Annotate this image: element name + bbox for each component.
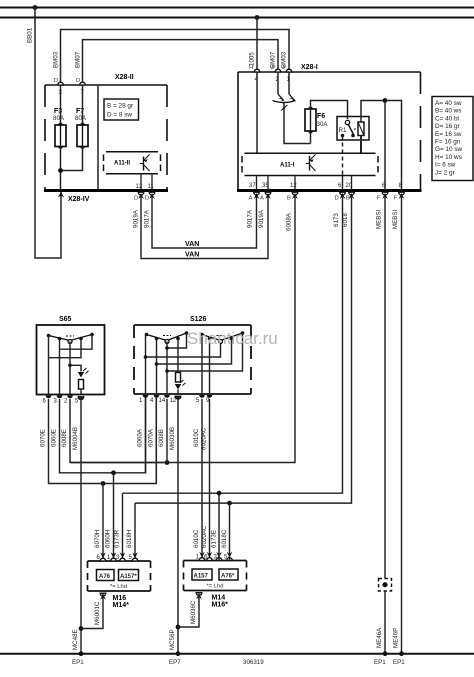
junction line D with M16 pin6 wire — [101, 481, 106, 486]
junction M6001C joins M6004B — [79, 626, 84, 631]
svg-text:R1: R1 — [339, 127, 347, 134]
svg-text:B= 40 ws: B= 40 ws — [435, 108, 461, 115]
wire 1005 down to X28-I pin 4 — [256, 18, 258, 73]
svg-text:12: 12 — [136, 184, 143, 190]
svg-text:9017A: 9017A — [247, 209, 254, 228]
wire VAN lower (9019A: A11-II pin12 to A11-I pin35) — [141, 194, 268, 259]
svg-text:M16: M16 — [113, 595, 127, 602]
wire M16 pin6 drop — [102, 484, 104, 562]
wire A11-I pin 12 stub — [294, 176, 296, 190]
wire M6036C (M14 to MC56P junction) — [178, 593, 199, 627]
S65 wire pin6 (left arm down to bottom) — [48, 336, 50, 395]
legend box B/D codes — [104, 99, 139, 120]
svg-text:A: A — [249, 196, 253, 202]
svg-text:M6030B: M6030B — [169, 427, 176, 450]
wire BB01 vertical feed — [35, 8, 61, 259]
relay coil box with diagonal — [358, 122, 364, 136]
connector M16 box — [88, 561, 151, 591]
svg-text:H: H — [249, 65, 253, 71]
pin 12 bump + code B — [292, 192, 298, 195]
wire M14 pin3 from line B junction — [218, 493, 220, 560]
wire M16 pin1 drop — [113, 473, 115, 561]
svg-text:6060E: 6060E — [51, 429, 58, 447]
S126 wire LED to pin12 — [177, 390, 179, 395]
svg-text:H= 10 ws: H= 10 ws — [435, 154, 462, 161]
relay contact dot right — [351, 134, 355, 138]
S126 resistor — [176, 373, 181, 383]
S126 link right arm to pin14 col — [167, 333, 243, 371]
legend box wire codes — [432, 97, 473, 181]
svg-text:80A: 80A — [75, 115, 87, 122]
svg-text:20: 20 — [346, 183, 353, 189]
svg-text:J: J — [282, 65, 285, 71]
S126 wire LED/resistor branch from stub178 — [177, 339, 179, 373]
svg-text:EP7: EP7 — [169, 659, 181, 666]
transistor icon in A11-II — [140, 155, 150, 172]
svg-text:B = 28 gr: B = 28 gr — [107, 103, 134, 110]
svg-text:37: 37 — [249, 183, 256, 189]
junction ME46P at bus — [399, 651, 404, 656]
wire pin2 down to splice with arrowhead — [277, 72, 279, 94]
svg-text:D: D — [145, 196, 149, 202]
S65 LED symbol — [78, 368, 89, 378]
svg-text:MC48E: MC48E — [72, 629, 79, 650]
S65 wire right arm to pin3 link — [60, 335, 93, 350]
wire BM07 (X28-II pin7 to X28-I pin2) — [83, 40, 279, 85]
pin 4 bump on X28-I top — [254, 69, 260, 72]
svg-text:ME46P: ME46P — [393, 628, 400, 648]
svg-text:G= 10 sw: G= 10 sw — [435, 146, 463, 153]
S126 link stub231 to pin4 col — [157, 339, 232, 365]
svg-text:A76: A76 — [99, 574, 111, 580]
arrowhead up at pin 8F wire — [399, 193, 405, 199]
svg-text:C= 40 bl: C= 40 bl — [435, 115, 459, 122]
svg-text:I= 6 sw: I= 6 sw — [435, 162, 456, 169]
S65 contact dot right arm — [90, 333, 94, 337]
svg-text:M6004B: M6004B — [72, 427, 79, 450]
S65 wire resistor to pin5 — [80, 389, 82, 395]
wire pin1 down to splice with arrowhead — [288, 72, 290, 94]
wire F7 output to junction — [61, 147, 83, 171]
S126 wire pin14 (left pivot down) — [166, 342, 168, 395]
pin 2 bump on X28-I top — [275, 69, 281, 72]
svg-text:J: J — [271, 65, 274, 71]
pin 1 bump on X28-I top — [286, 69, 292, 72]
S126 right pivot dashes — [217, 335, 225, 337]
connector box X28-I — [237, 72, 422, 191]
pin 6 bump + code D — [340, 192, 346, 195]
arrowhead up at pin 12 wire — [292, 193, 298, 199]
svg-text:F= 16 gn: F= 16 gn — [435, 139, 461, 146]
svg-text:80A: 80A — [53, 115, 65, 122]
M14 pin bumps on top — [199, 558, 205, 561]
svg-text:VAN: VAN — [185, 241, 199, 248]
pin 3 bump on X28-II top — [58, 82, 64, 85]
svg-text:E= 16 sw: E= 16 sw — [435, 131, 462, 138]
S65 junction LED branch — [68, 364, 72, 368]
junction ground bus EP1 left — [79, 651, 84, 656]
bus bar 30 (top supply line 1) — [0, 7, 474, 9]
M16 ground pin bump bottom-left — [100, 593, 106, 596]
X28-IV feed arrow into box — [58, 192, 64, 198]
pin 35 bump + code A — [265, 192, 271, 195]
junction on coil ground wire — [383, 98, 388, 103]
pin 11 bump below X28-II bottom — [149, 192, 155, 195]
svg-text:12: 12 — [290, 183, 297, 189]
junction line B with M14 pin 3 wire — [217, 491, 222, 496]
arrowhead up at pin 20 wire — [349, 193, 355, 199]
S65 wire pin2 (pivot down to bottom) — [69, 342, 71, 395]
svg-text:6173R: 6173R — [114, 529, 121, 548]
pin 8F bump + code F — [399, 192, 405, 195]
wire 6070A (S126 pin4 down, line D end) — [155, 399, 157, 484]
component A11-I dashed box — [242, 153, 378, 175]
svg-text:BB01: BB01 — [27, 27, 34, 43]
M14 ground pin bump bottom-left — [196, 593, 202, 596]
component A11-II dashed box — [104, 152, 161, 174]
svg-text:X28-IV: X28-IV — [68, 196, 90, 203]
wire 6008B (S126 pin14 down to line A junction) — [166, 399, 168, 463]
switch unit S65 box — [37, 325, 105, 395]
component A76* box in M14 — [219, 569, 238, 580]
wire A11-I pin 35 stub — [267, 176, 269, 190]
M16 ground wire arrowhead up — [100, 594, 106, 600]
S126 left pivot dashes — [163, 335, 171, 337]
S65 wire pin3 (stub down to bottom) — [59, 339, 61, 395]
svg-text:B: B — [346, 196, 350, 202]
junction F3/F7 outputs — [58, 168, 63, 173]
relay switch arm — [348, 125, 353, 135]
svg-text:6018H: 6018H — [126, 530, 133, 548]
wire A11-II pin 11 — [151, 174, 153, 190]
M16 pin bumps on top — [100, 558, 106, 561]
wire 6070E (S65 pin6 to line D) — [49, 397, 157, 484]
junction on bus 2 for wire 1005 — [255, 15, 260, 20]
svg-text:MC56P: MC56P — [169, 629, 176, 650]
svg-text:9017A: 9017A — [144, 209, 151, 228]
junction ME46A at bus — [383, 651, 388, 656]
S126 link left right-arm to y348 — [167, 333, 187, 348]
junction ground bus EP7 — [176, 651, 181, 656]
svg-text:B: B — [287, 196, 291, 202]
relay contact pivot circle — [345, 120, 349, 124]
svg-text:M6036C: M6036C — [190, 600, 197, 624]
wire A11-I pin 37 stub — [256, 176, 258, 190]
svg-text:M14*: M14* — [113, 602, 130, 609]
svg-text:D: D — [76, 78, 80, 84]
relay link dashes — [354, 128, 358, 130]
S126 left switch contact dots — [145, 333, 149, 337]
relay R1 box — [337, 117, 369, 141]
wire relay coil top to pins 6/8 (ground side) — [361, 101, 402, 191]
dashed wire relay contact to pin 6 — [342, 136, 344, 176]
spliced wire down and right to fuse F6 — [284, 103, 311, 144]
wire line B drop to M16 pin 3 — [122, 493, 124, 561]
S126 pin bumps bottom — [143, 395, 149, 398]
wire 1005 inside X28-I down to A11-I — [256, 72, 258, 153]
svg-text:6008A: 6008A — [286, 212, 293, 231]
svg-text:A11-I: A11-I — [280, 163, 295, 169]
svg-text:D: D — [54, 78, 58, 84]
wire 6018 (X28-I pin20 down to line E) — [135, 196, 352, 503]
connector box X28-II — [44, 85, 168, 191]
pin 20 bump + code B — [349, 192, 355, 195]
svg-text:EP1: EP1 — [374, 659, 386, 666]
wire M6030B (S126 pin12 ground to EP7) — [177, 399, 179, 654]
wire M6001C (M16 to MC48E junction) — [81, 594, 103, 629]
pin 37 bump + code A — [254, 192, 260, 195]
junction line C with M16 pin1 wire — [111, 470, 116, 475]
wire 6060A (S126 pin1 down, line C end) — [145, 399, 147, 473]
S126 right switch contact dots — [200, 333, 204, 337]
svg-text:D: D — [335, 196, 339, 202]
connector M14 box — [184, 561, 247, 591]
wire MEBSI (pin 8F to EP1 ground) — [401, 196, 403, 654]
svg-text:D: D — [134, 196, 138, 202]
wire 6010C (S126 pin5 down to M14 pin1) — [201, 399, 203, 561]
svg-text:6010C: 6010C — [193, 529, 200, 548]
svg-text:M16*: M16* — [212, 602, 229, 609]
S126 wire pin5 (right left-arm down) — [201, 335, 203, 395]
svg-text:BM03: BM03 — [53, 51, 60, 68]
junction line A with S126 pin 14 wire — [165, 460, 170, 465]
svg-text:F: F — [394, 196, 398, 202]
svg-text:6060H: 6060H — [105, 530, 112, 548]
svg-text:F6: F6 — [317, 113, 325, 120]
svg-text:14: 14 — [159, 398, 166, 404]
svg-text:6020AC: 6020AC — [201, 525, 208, 548]
svg-text:*= Lhd: *= Lhd — [110, 584, 127, 590]
svg-text:MEBSI: MEBSI — [376, 209, 383, 229]
switch unit S126 box — [134, 325, 251, 394]
svg-text:*= Lhd: *= Lhd — [207, 584, 224, 590]
S126 right pivot circle — [219, 340, 223, 344]
S126 link right pivot to pin1 col — [146, 343, 221, 358]
relay contact dot left — [341, 134, 345, 138]
arrowhead up at pin 37 wire — [254, 193, 260, 199]
S126 left pivot circle — [165, 340, 169, 344]
bus bar 15 (top supply line 2) — [0, 17, 474, 19]
svg-text:9019A: 9019A — [258, 209, 265, 228]
S126 junction pin1/y357 — [144, 355, 148, 359]
S126 junction pin14/y371 — [165, 369, 169, 373]
wire relay coil bottom to A11-I — [360, 136, 362, 154]
svg-text:M6001C: M6001C — [94, 601, 101, 625]
svg-text:6070A: 6070A — [148, 428, 155, 447]
svg-text:A= 40 sw: A= 40 sw — [435, 100, 462, 107]
svg-text:30A: 30A — [317, 121, 329, 128]
S65 contact dot left arm — [47, 334, 51, 338]
svg-text:6173: 6173 — [333, 213, 340, 227]
S126 LED symbol — [175, 380, 186, 390]
wire M6004B (S65 pin5 ground) — [80, 399, 82, 654]
svg-text:EP1: EP1 — [72, 659, 84, 666]
M14 wire arrowheads down — [199, 552, 205, 558]
S126 junction pin4/y364 — [155, 362, 159, 366]
transistor icon in A11-I — [306, 155, 316, 172]
S65 contact stub dot at pin3 — [58, 337, 62, 341]
fuse F7 wire from pin 7 — [82, 85, 84, 125]
svg-text:M14: M14 — [212, 595, 226, 602]
wire 6173 (X28-I pin6 down to line B) — [123, 196, 343, 493]
svg-text:6018C: 6018C — [221, 529, 228, 548]
pin 6F bump + code F — [382, 192, 388, 195]
svg-text:35: 35 — [262, 183, 269, 189]
svg-text:A: A — [260, 196, 264, 202]
svg-text:S65: S65 — [59, 316, 72, 323]
wire junction down to pin 6F — [384, 101, 386, 191]
wire F3 output down — [60, 147, 62, 191]
M16 wire arrowheads down — [100, 552, 106, 558]
S126 junction pin14/y348 — [165, 346, 169, 350]
arrowhead up at pin 35 wire — [265, 193, 271, 199]
arrowhead up at pin 6 wire — [340, 193, 346, 199]
fuse F6 body — [305, 106, 316, 144]
fuse F3 body — [55, 122, 66, 150]
svg-text:6070H: 6070H — [94, 530, 101, 548]
splice arc joining pins 1+2 — [273, 101, 296, 103]
S126 wire pin4 (stub down) — [156, 339, 158, 395]
svg-text:9019A: 9019A — [133, 209, 140, 228]
svg-text:X28-I: X28-I — [301, 64, 318, 71]
S65 pivot circle — [68, 340, 72, 344]
wire line E drop to M16 pin 5 — [134, 503, 136, 561]
splice tick mark — [281, 105, 288, 111]
wire MEBSI (pin 6F to EP1 ground) — [384, 196, 386, 654]
svg-text:306319: 306319 — [243, 659, 264, 666]
svg-text:A157: A157 — [194, 573, 209, 579]
svg-text:12: 12 — [170, 398, 177, 404]
S65 switch right arm — [70, 335, 92, 341]
junction M6036C joins M6030B — [176, 625, 181, 630]
junction line E with M14 pin 5 wire — [227, 501, 232, 506]
S65 pivot dashes — [66, 335, 74, 337]
S65 pin bumps bottom — [46, 396, 52, 399]
S65 contact stub dot at pin5 col — [79, 337, 83, 341]
svg-text:EP1: EP1 — [393, 659, 405, 666]
S126 right switch arms — [202, 335, 221, 341]
svg-text:6020AC: 6020AC — [201, 427, 208, 450]
wire F6 top to relay contact — [311, 101, 348, 120]
svg-text:ME46A: ME46A — [376, 627, 383, 648]
svg-text:A76*: A76* — [221, 573, 235, 579]
svg-text:MEBSI: MEBSI — [392, 209, 399, 229]
svg-text:X28-II: X28-II — [115, 74, 134, 81]
svg-text:A157*: A157* — [120, 574, 137, 580]
svg-text:J= 2 gr: J= 2 gr — [435, 169, 456, 176]
S126 wire pin9 (right stub down) — [209, 339, 211, 395]
svg-text:BM07: BM07 — [75, 51, 82, 68]
ground bus bar 31 — [0, 653, 474, 655]
wire 6020AC (S126 pin9 down to M14 pin6) — [209, 399, 211, 561]
svg-text:6070E: 6070E — [40, 429, 47, 447]
svg-text:6008B: 6008B — [158, 429, 165, 447]
wire 6008A (X28-I pin12 down to line A) — [71, 196, 295, 463]
arrowhead up at pin 6F wire — [382, 193, 388, 199]
M14 ground wire arrowhead up — [196, 593, 202, 599]
svg-text:D = 8 sw: D = 8 sw — [107, 112, 132, 119]
wire M14 pin5 from line E junction — [229, 503, 231, 560]
S126 wire pin1 (left arm down) — [145, 335, 147, 395]
inline connector on ME46A wire — [379, 579, 392, 592]
fuse F7 body — [77, 122, 88, 150]
fuse F3 wire from pin 3 — [60, 85, 62, 125]
S126 left switch arms — [147, 335, 168, 341]
component A157 box in M14 — [192, 569, 212, 580]
svg-text:1005: 1005 — [249, 52, 256, 66]
svg-text:6010C: 6010C — [193, 428, 200, 447]
svg-text:6173E: 6173E — [211, 530, 218, 548]
svg-text:11: 11 — [148, 184, 155, 190]
svg-text:Shanticar.ru: Shanticar.ru — [187, 329, 278, 348]
junction on bus 1 for BB01 — [33, 5, 38, 10]
component A157* box in M16 — [119, 570, 139, 581]
pin 7 bump on X28-II top — [80, 82, 86, 85]
S65 wire LED branch — [70, 365, 81, 371]
S65 resistor — [79, 380, 84, 390]
S65 switch left arm — [49, 336, 71, 341]
wire 6060E (S65 pin3 to line C) — [60, 397, 146, 473]
component A76 box in M16 — [97, 570, 115, 581]
svg-text:F: F — [377, 196, 381, 202]
pin 12 bump below X28-II bottom — [138, 192, 144, 195]
S65 wire stub5 to pin6 link — [49, 339, 82, 358]
svg-text:6008E: 6008E — [61, 429, 68, 447]
wire VAN upper (9017A: A11-II pin11 to A11-I pin37) — [152, 194, 257, 248]
wire BM03 (X28-II pin3 to X28-I pin1) — [61, 30, 290, 86]
svg-text:D= 16 gr: D= 16 gr — [435, 123, 461, 130]
wire 6008E (S65 pin2 to line A) — [70, 399, 167, 463]
svg-text:6018: 6018 — [342, 213, 349, 227]
svg-text:6060A: 6060A — [137, 428, 144, 447]
svg-text:VAN: VAN — [185, 252, 199, 259]
svg-text:A11-II: A11-II — [114, 161, 130, 167]
wire A11-I pin 20 stub — [351, 176, 353, 190]
divider wall inside X28-II — [97, 85, 99, 189]
svg-text:S126: S126 — [190, 316, 206, 323]
wire A11-II pin 12 — [140, 174, 142, 190]
